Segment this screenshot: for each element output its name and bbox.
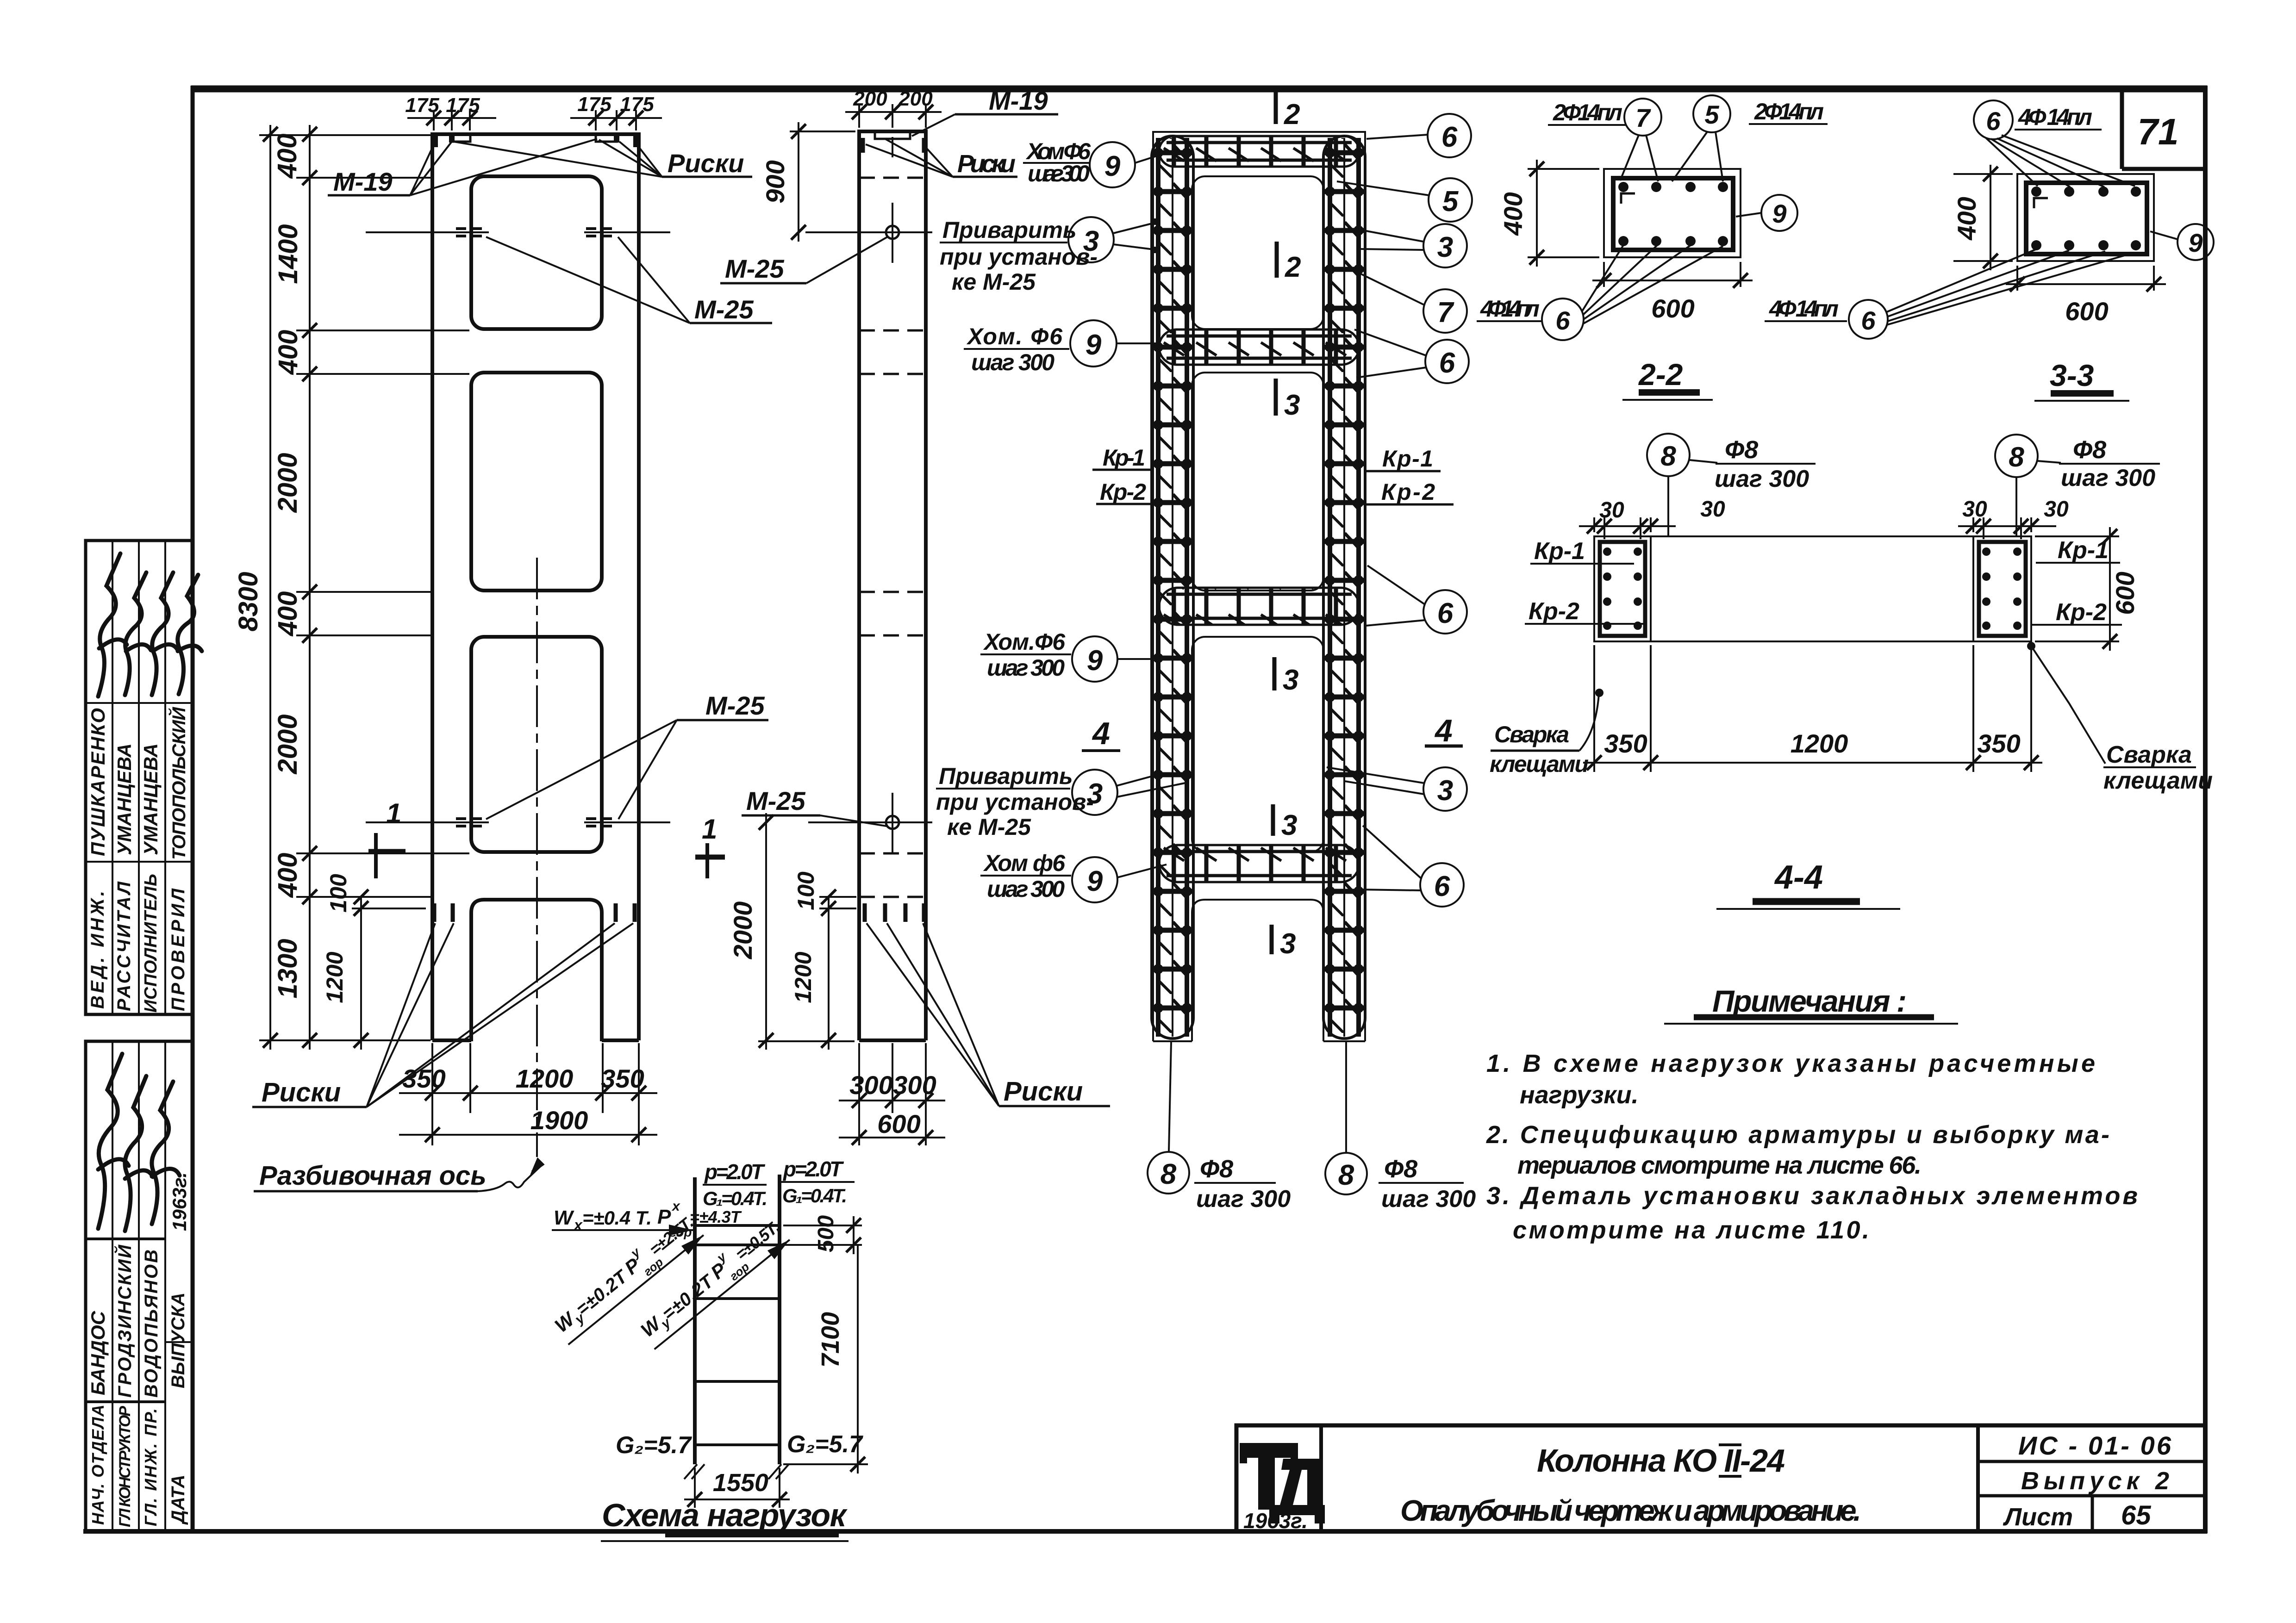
svg-text:1: 1 (702, 814, 717, 845)
svg-text:3: 3 (1437, 231, 1453, 263)
svg-text:3: 3 (1283, 664, 1298, 696)
svg-text:3: 3 (1437, 775, 1453, 807)
section tick 3 (opening 4) (1270, 925, 1274, 954)
stirrup band 2 (1160, 330, 1358, 364)
svg-text:G₂=5.7: G₂=5.7 (616, 1432, 692, 1459)
svg-text:1: 1 (386, 798, 401, 829)
section 4-4 callout 8 right (1995, 435, 2038, 477)
svg-text:400: 400 (273, 330, 303, 375)
svg-text:175: 175 (446, 94, 480, 117)
section mark 1 view 1 (368, 833, 406, 878)
svg-text:100: 100 (793, 871, 819, 910)
svg-text:Приварить: Приварить (939, 763, 1073, 789)
svg-text:400: 400 (1952, 197, 1981, 240)
svg-text:ГРОДЗИНСКИЙ: ГРОДЗИНСКИЙ (113, 1244, 135, 1398)
svg-text:1400: 1400 (273, 224, 303, 284)
svg-text:3: 3 (1087, 778, 1103, 810)
svg-text:5: 5 (1442, 186, 1459, 218)
opening 3 view 1 (471, 637, 602, 852)
svg-text:p=2.0Т: p=2.0Т (704, 1160, 766, 1184)
svg-text:Кр-1: Кр-1 (1382, 446, 1433, 472)
dim 1550 (684, 1468, 790, 1508)
100 / 1200 chain view 2 (819, 897, 856, 1050)
section 4-4 left web outline (1594, 536, 1651, 641)
svg-text:Кр-2: Кр-2 (1100, 479, 1146, 505)
hidden opening edges (dashed) view 2 (859, 178, 926, 897)
column outline view 2 (857, 131, 928, 1040)
svg-text:350: 350 (601, 1064, 644, 1093)
svg-text:ГЛ КОНСТРУКТОР: ГЛ КОНСТРУКТОР (116, 1406, 134, 1527)
svg-text:нагрузки.: нагрузки. (1520, 1081, 1639, 1109)
svg-text:4: 4 (1092, 716, 1110, 751)
svg-text:71: 71 (2138, 111, 2179, 152)
signatures block 1 (98, 553, 202, 696)
svg-text:Ф8: Ф8 (2073, 436, 2106, 464)
svg-text:200: 200 (898, 87, 933, 110)
svg-text:Риски: Риски (668, 149, 744, 178)
opening 1 view 1 (471, 176, 602, 329)
svg-text:1300: 1300 (273, 939, 303, 998)
svg-text:шаг 300: шаг 300 (1028, 161, 1090, 187)
section 2-2 stirrup (1613, 178, 1733, 250)
bottom dims view 2: 300 300 / 600 (839, 1043, 945, 1145)
svg-text:М-25: М-25 (694, 295, 754, 324)
svg-text:30: 30 (2044, 497, 2069, 522)
svg-text:2: 2 (1284, 99, 1300, 131)
svg-text:350: 350 (1604, 729, 1647, 758)
svg-text:2Ф14пл: 2Ф14пл (1553, 99, 1622, 125)
svg-text:8300: 8300 (233, 572, 263, 631)
svg-text:8: 8 (1160, 1158, 1177, 1190)
svg-text:9: 9 (1086, 329, 1102, 361)
stirrup band 4 (1160, 846, 1358, 881)
svg-text:2000: 2000 (728, 902, 757, 960)
svg-text:400: 400 (273, 853, 303, 898)
svg-text:Хом.Ф6: Хом.Ф6 (983, 629, 1066, 655)
svg-text:Риски: Риски (1004, 1076, 1083, 1107)
svg-text:ГЛ. ИНЖ. ПР.: ГЛ. ИНЖ. ПР. (141, 1408, 160, 1526)
reinforcement column outline (1153, 132, 1365, 1041)
svg-text:2-2: 2-2 (1638, 357, 1683, 392)
callout 3 right lower (1423, 767, 1467, 811)
extension lines left dimension chains view 1 (259, 135, 469, 1040)
svg-text:7100: 7100 (817, 1312, 844, 1368)
svg-text:Лист: Лист (2003, 1503, 2073, 1531)
svg-text:при установ-: при установ- (936, 789, 1094, 815)
svg-text:4Ф 14пл: 4Ф 14пл (2018, 104, 2092, 130)
svg-text:30: 30 (1700, 497, 1725, 522)
section tick 3 (opening 3 top) (1273, 657, 1277, 690)
callout 6 right lower (1420, 863, 1464, 907)
svg-text:=±4.3Т: =±4.3Т (690, 1207, 742, 1226)
svg-text:G₁=0.4Т.: G₁=0.4Т. (782, 1185, 847, 1206)
svg-text:7: 7 (1437, 297, 1454, 329)
right rebar cage (vertical) (1324, 138, 1364, 1037)
svg-text:БАНДОС: БАНДОС (87, 1311, 109, 1395)
svg-text:8: 8 (2009, 442, 2024, 473)
callout 8 left (f8 shag 300) (1148, 1152, 1189, 1194)
svg-text:900: 900 (761, 160, 790, 203)
svg-text:p=2.0Т: p=2.0Т (782, 1157, 844, 1181)
svg-text:6: 6 (1441, 121, 1458, 153)
callout 6 right band3 (1423, 590, 1467, 634)
svg-text:6: 6 (1434, 871, 1450, 902)
section 2-2 dim 600 (1592, 262, 1753, 287)
riski scribe marks view 1 bottom (434, 903, 635, 922)
column outline view 1 (430, 134, 641, 1040)
svg-text:1963г.: 1963г. (1243, 1509, 1308, 1533)
section 4-4 bottom dims 350 1200 350 (1583, 645, 2042, 772)
svg-text:1200: 1200 (790, 951, 816, 1003)
svg-text:400: 400 (273, 591, 303, 637)
svg-text:9: 9 (1087, 645, 1103, 677)
svg-text:ВЕД. ИНЖ.: ВЕД. ИНЖ. (87, 891, 108, 1009)
svg-text:30: 30 (1962, 497, 1987, 522)
column center axis line view 1 (536, 558, 538, 1157)
section 3-3 concrete outline (2017, 174, 2154, 261)
svg-text:М-25: М-25 (705, 691, 765, 720)
Wy diagonal load 1 (545, 1206, 707, 1349)
section 4-4 callout 8 left (1647, 434, 1690, 476)
svg-text:Колонна КО II-24: Колонна КО II-24 (1537, 1443, 1785, 1479)
M-25 embed marks lower view 1 (366, 819, 670, 826)
svg-text:М-19: М-19 (333, 167, 393, 196)
svg-text:1200: 1200 (322, 951, 348, 1003)
svg-text:600: 600 (2110, 572, 2140, 615)
section tick 2 (opening 1) (1275, 242, 1279, 278)
M-25 disc upper view 2 (886, 226, 899, 239)
leaders riski view 1 top (454, 140, 662, 177)
left rebar cage (vertical) (1153, 138, 1192, 1037)
svg-text:600: 600 (1651, 294, 1694, 323)
svg-text:300: 300 (849, 1070, 892, 1100)
svg-text:шаг 300: шаг 300 (1381, 1186, 1476, 1213)
svg-text:5: 5 (1704, 100, 1719, 129)
svg-text:Схема нагрузок: Схема нагрузок (602, 1497, 848, 1533)
leg axis leaders to callouts 8 (1169, 1042, 1171, 1151)
svg-text:3: 3 (1284, 389, 1300, 421)
svg-text:при установ-: при установ- (940, 244, 1098, 270)
svg-text:=±0.4 Т.: =±0.4 Т. (582, 1207, 652, 1229)
svg-text:ПУШКАРЕНКО: ПУШКАРЕНКО (87, 708, 109, 856)
svg-text:Кр-1: Кр-1 (1103, 445, 1145, 471)
top 175 dims view 1 (407, 110, 662, 131)
svg-text:ке М-25: ке М-25 (947, 814, 1031, 840)
svg-text:4-4: 4-4 (1774, 859, 1823, 896)
section 4-4 dims 30 (1579, 517, 1676, 539)
svg-text:8: 8 (1338, 1159, 1354, 1191)
section 3-3 dim 600 (2006, 266, 2166, 291)
section 4-4 right stirrup (1979, 542, 2026, 636)
svg-text:М-25: М-25 (725, 254, 784, 283)
stamp table block 2 (responsibles) (86, 1041, 192, 1531)
callout 5 right (1429, 178, 1472, 222)
svg-text:9: 9 (1772, 199, 1786, 228)
riski scribe marks view 2 top (863, 138, 924, 153)
top notch view 2 (875, 132, 910, 139)
svg-text:1. В схеме нагрузок указа: 1. В схеме нагрузок указаны расчетные (1486, 1050, 2095, 1077)
svg-text:300: 300 (893, 1070, 936, 1100)
svg-text:териалов смотрите на лис: териалов смотрите на листе 66. (1517, 1151, 1922, 1179)
svg-text:500: 500 (814, 1215, 838, 1252)
M-25 embed marks upper view 1 (366, 229, 670, 236)
svg-text:6: 6 (1555, 306, 1570, 335)
opening 2 view 1 (471, 373, 602, 591)
svg-text:100: 100 (325, 874, 351, 913)
svg-text:Ф8: Ф8 (1384, 1155, 1417, 1183)
svg-text:175: 175 (620, 93, 654, 116)
section 2-2 callout 9 (1761, 195, 1797, 231)
dim 500 (783, 1216, 862, 1254)
svg-text:Разбивочная ось: Разбивочная ось (259, 1161, 487, 1191)
section tick 3 (opening 2 top) (1274, 379, 1278, 416)
svg-text:6: 6 (1437, 597, 1454, 629)
svg-text:6: 6 (1986, 106, 2001, 136)
svg-text:600: 600 (877, 1109, 920, 1138)
900 dim view 2 (790, 122, 855, 242)
svg-text:ИС - 01- 06: ИС - 01- 06 (2018, 1431, 2171, 1460)
svg-text:Ф8: Ф8 (1200, 1155, 1233, 1183)
M-25 disc lower view 2 (886, 816, 899, 829)
svg-text:2. Спецификацию арматуры: 2. Спецификацию арматуры и выборку ма- (1486, 1121, 2109, 1149)
svg-text:ТОПОПОЛЬСКИЙ: ТОПОПОЛЬСКИЙ (168, 707, 189, 860)
section 4-4 right web outline (1973, 536, 2031, 641)
callout 6 right mid (1425, 340, 1469, 383)
svg-text:Сварка: Сварка (1494, 721, 1569, 747)
riski scribe marks view 2 bottom (865, 903, 924, 922)
svg-text:1200: 1200 (516, 1064, 574, 1093)
svg-text:x: x (671, 1199, 680, 1214)
svg-text:Кр-1: Кр-1 (2058, 537, 2109, 564)
section 4-4 left stirrup (1600, 542, 1645, 636)
svg-text:400: 400 (1498, 192, 1528, 236)
svg-text:175: 175 (577, 93, 611, 116)
section 2-2 dim 400 (1528, 160, 1599, 267)
2000 dim view 2 (758, 813, 855, 1050)
stirrup band 3 (1160, 589, 1358, 624)
200 200 top dims view 2 (845, 104, 942, 128)
svg-text:2: 2 (1285, 251, 1301, 283)
section tick 2 (top) (1274, 91, 1278, 124)
svg-text:шаг 300: шаг 300 (1715, 466, 1809, 492)
svg-text:1900: 1900 (530, 1106, 588, 1135)
svg-text:Опалубочный чертеж и армир: Опалубочный чертеж и армирование. (1400, 1494, 1861, 1527)
svg-text:Выпуск 2: Выпуск 2 (2021, 1467, 2169, 1495)
svg-text:Риски: Риски (957, 150, 1016, 178)
svg-text:Сварка: Сварка (2106, 741, 2192, 768)
svg-text:9: 9 (2188, 228, 2202, 257)
svg-text:175: 175 (405, 94, 439, 117)
bottom dims view 1: 350 1200 350 / 1900 (399, 1043, 657, 1145)
section 2-2 concrete outline (1604, 169, 1741, 257)
opening 4 view 1 (open bottom) (471, 900, 602, 1041)
svg-text:8: 8 (1660, 441, 1676, 472)
svg-text:3: 3 (1280, 928, 1296, 960)
svg-text:клещами: клещами (2103, 767, 2213, 794)
svg-text:УМАНЦЕВА: УМАНЦЕВА (140, 743, 162, 855)
svg-text:4: 4 (1434, 713, 1453, 748)
svg-text:3. Деталь установки закл: 3. Деталь установки закладных элементов (1486, 1182, 2138, 1210)
svg-text:РАССЧИТАЛ: РАССЧИТАЛ (114, 881, 134, 1011)
svg-text:1550: 1550 (713, 1469, 768, 1497)
load frame posts (695, 1175, 780, 1464)
Wy diagonal load 2 (631, 1211, 793, 1353)
sheet number box 71 (2122, 89, 2205, 169)
svg-text:Кр-2: Кр-2 (1529, 598, 1579, 625)
svg-text:2Ф14пл: 2Ф14пл (1754, 99, 1824, 124)
dimension chain segments view 1 (400/1400/400/2000/400/2000/400/1300) (270, 125, 361, 1050)
svg-text:Риски: Риски (262, 1077, 341, 1107)
svg-text:ке М-25: ке М-25 (952, 269, 1036, 295)
leaders M-19 view 1 (410, 139, 597, 195)
section 3-3 rebar dots (2031, 187, 2141, 250)
svg-text:Кр-1: Кр-1 (1534, 538, 1585, 565)
svg-text:2000: 2000 (273, 714, 303, 774)
svg-text:ДАТА: ДАТА (168, 1474, 188, 1525)
section mark 1 view 2 (695, 843, 725, 878)
stamp table block 1 (approvals) (86, 541, 192, 1014)
svg-text:4Ф14пл: 4Ф14пл (1480, 296, 1540, 322)
svg-text:9: 9 (1104, 150, 1121, 182)
section 3-3 top callout 6 (4f14pl) (1974, 100, 2013, 139)
svg-text:G₁=0.4Т.: G₁=0.4Т. (703, 1188, 767, 1209)
section 4-4 top/bottom outline lines (1594, 535, 2031, 537)
svg-text:3-3: 3-3 (2050, 358, 2094, 392)
callout 3 right (1423, 224, 1467, 267)
svg-text:шаг 300: шаг 300 (971, 349, 1054, 375)
svg-text:30: 30 (1599, 498, 1624, 522)
svg-text:шаг 300: шаг 300 (1196, 1186, 1291, 1213)
svg-text:Кр-2: Кр-2 (2056, 599, 2107, 626)
svg-text:шаг 300: шаг 300 (987, 655, 1065, 681)
svg-text:3: 3 (1083, 225, 1099, 257)
svg-text:НАЧ. ОТДЕЛА: НАЧ. ОТДЕЛА (88, 1405, 107, 1525)
svg-text:9: 9 (1087, 865, 1103, 897)
svg-text:200: 200 (853, 87, 887, 110)
TD logo (1240, 1443, 1325, 1524)
load frame rungs (695, 1225, 780, 1445)
svg-text:6: 6 (1439, 347, 1455, 379)
svg-text:6: 6 (1861, 306, 1876, 335)
svg-text:Ф8: Ф8 (1725, 436, 1758, 464)
callout 8 right (f8 shag 300) (1325, 1153, 1367, 1194)
svg-text:М-25: М-25 (746, 786, 805, 815)
section 4-4 dim 600 right (2035, 527, 2119, 651)
signatures block 2 (98, 1054, 180, 1231)
svg-text:ИСПОЛНИТЕЛЬ: ИСПОЛНИТЕЛЬ (141, 874, 161, 1013)
svg-text:Хом ф6: Хом ф6 (983, 850, 1066, 876)
svg-text:1200: 1200 (1791, 729, 1848, 758)
svg-text:Приварить: Приварить (942, 217, 1077, 243)
svg-text:65: 65 (2121, 1500, 2151, 1530)
section 3-3 stirrup (2026, 183, 2147, 254)
svg-text:W: W (554, 1206, 574, 1229)
dim 7100 (783, 1245, 868, 1474)
svg-text:350: 350 (1977, 729, 2020, 758)
svg-text:Примечания :: Примечания : (1712, 984, 1907, 1018)
section 3-3 dim 400 (1953, 165, 2013, 270)
top notches and M-19 plates view 1 (452, 135, 617, 142)
svg-text:G₂=5.7: G₂=5.7 (787, 1431, 863, 1458)
svg-text:2000: 2000 (273, 453, 303, 513)
svg-text:УМАНЦЕВА: УМАНЦЕВА (113, 743, 135, 855)
svg-text:шаг 300: шаг 300 (987, 876, 1065, 902)
stirrup band 1 (top) (1160, 137, 1358, 166)
callout 6 top right (1428, 114, 1471, 157)
svg-text:7: 7 (1635, 103, 1651, 132)
svg-text:1963г.: 1963г. (168, 1172, 190, 1231)
svg-text:3: 3 (1281, 809, 1297, 841)
section 3-3 callout 9 (2177, 224, 2214, 260)
ground hatches (684, 1464, 789, 1479)
svg-text:400: 400 (272, 134, 302, 179)
svg-text:Кр-2: Кр-2 (1381, 479, 1435, 505)
svg-text:М-19: М-19 (989, 86, 1048, 115)
svg-text:ВЫПУСКА: ВЫПУСКА (168, 1293, 188, 1388)
section 2-2 rebar dots (1618, 182, 1728, 246)
svg-text:600: 600 (2065, 297, 2108, 326)
svg-text:клещами: клещами (1490, 751, 1589, 777)
svg-text:Хом. Ф6: Хом. Ф6 (966, 323, 1063, 349)
openings in reinforcement view (1192, 176, 1323, 329)
svg-text:4Ф 14пл: 4Ф 14пл (1769, 296, 1839, 322)
callout 7 right (1423, 289, 1467, 333)
section tick 3 (opening 3 bottom) (1271, 804, 1275, 836)
svg-text:шаг 300: шаг 300 (2061, 465, 2155, 491)
